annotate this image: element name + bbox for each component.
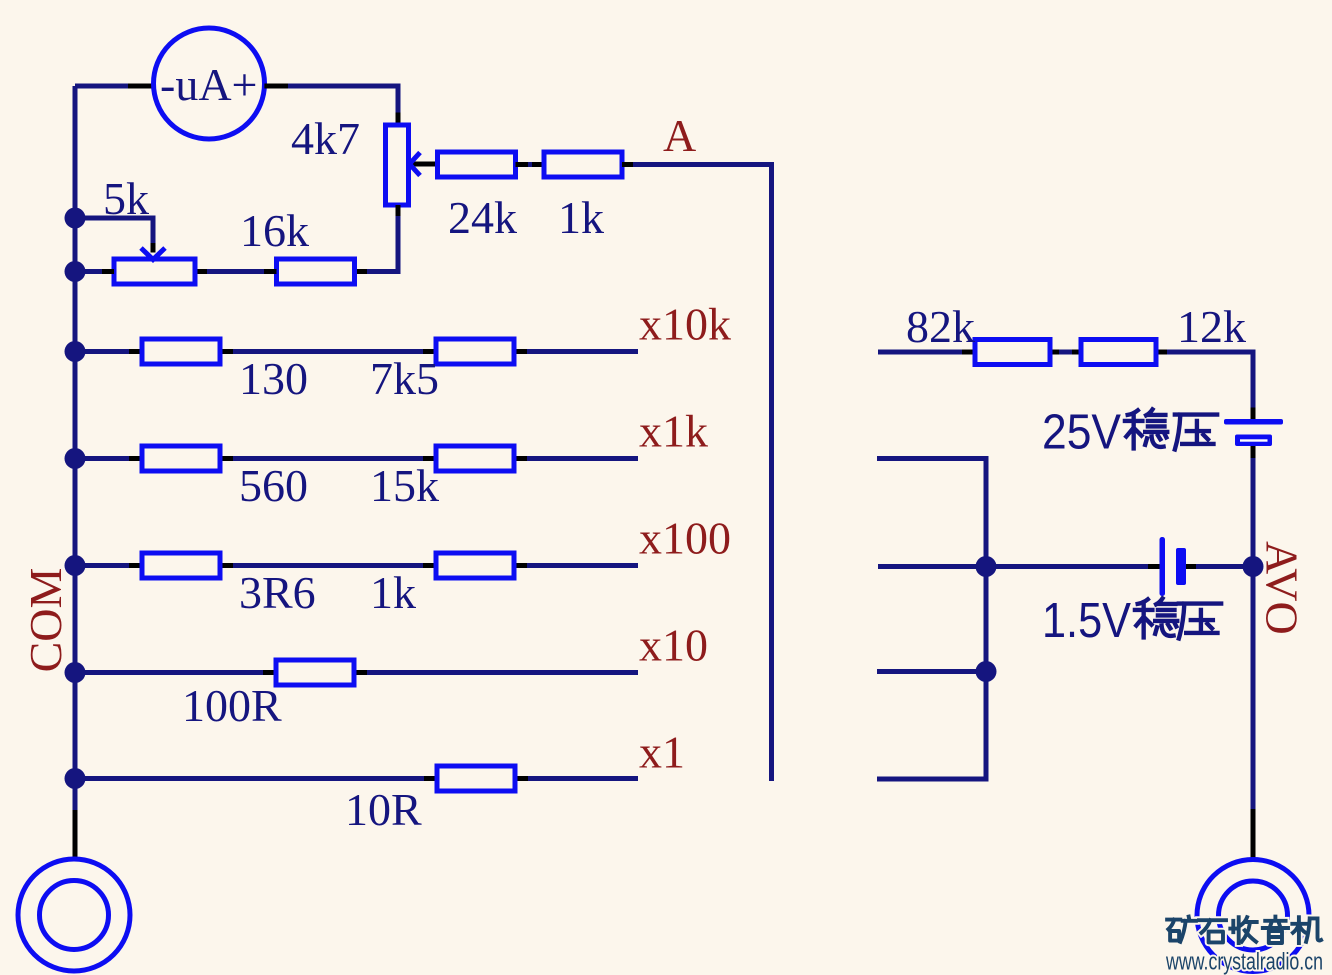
label 130 xyxy=(239,353,308,404)
wire: x10k row xyxy=(75,349,638,354)
node A label xyxy=(663,110,696,161)
label 4k7 xyxy=(291,113,360,164)
watermark halo xyxy=(1167,917,1321,943)
resistor R14 82k xyxy=(975,340,1050,365)
wire: x1k row xyxy=(75,456,638,461)
svg-text:1k: 1k xyxy=(558,192,604,243)
svg-text:7k5: 7k5 xyxy=(370,353,439,404)
svg-text:4k7: 4k7 xyxy=(291,113,360,164)
terminal COM concentric circles xyxy=(18,859,130,971)
svg-text:82k: 82k xyxy=(906,301,975,352)
label 560 xyxy=(239,460,308,511)
wiper arrow of 4k7 xyxy=(409,153,437,176)
resistor R2 16k xyxy=(277,259,355,284)
svg-text:100R: 100R xyxy=(182,680,282,731)
label 25V stabilizer xyxy=(1042,406,1217,460)
resistor R15 12k xyxy=(1081,340,1156,365)
wire: COM bus black pin to bottom terminal xyxy=(73,810,78,860)
wire: 82k 12k row xyxy=(878,352,1253,409)
wire: x10 row xyxy=(75,670,638,675)
svg-text:COM: COM xyxy=(20,568,71,673)
svg-text:15k: 15k xyxy=(370,460,439,511)
svg-text:1k: 1k xyxy=(370,567,416,618)
wire: between 5k and 16k xyxy=(195,269,277,274)
junction dot AVO node xyxy=(1243,556,1264,577)
ammeter label -uA+ xyxy=(160,59,257,110)
svg-text:A: A xyxy=(663,110,696,161)
label 10R xyxy=(345,784,422,835)
resistor R13 10R xyxy=(437,766,515,791)
node x100 label xyxy=(639,513,731,564)
resistor R5 1k xyxy=(544,152,622,177)
svg-text:12k: 12k xyxy=(1177,301,1246,352)
svg-text:x10: x10 xyxy=(639,620,708,671)
junction dots on COM bus xyxy=(65,208,86,790)
svg-text:560: 560 xyxy=(239,460,308,511)
label 1.5V stabilizer xyxy=(1042,594,1221,648)
resistor R6 130 xyxy=(142,339,220,364)
watermark url www.crystalradio.cn xyxy=(1165,949,1323,975)
resistor R12 100R xyxy=(276,660,354,685)
zener D1 25V battery symbol xyxy=(1224,408,1283,459)
wire: between 24k and 1k xyxy=(516,162,547,167)
wire: x1 row xyxy=(75,776,638,781)
label 24k xyxy=(448,192,517,243)
svg-text:16k: 16k xyxy=(240,205,309,256)
terminal AVO concentric circles xyxy=(1197,860,1309,972)
label 1k xyxy=(558,192,604,243)
label 100R xyxy=(182,680,282,731)
node AVO label xyxy=(1257,541,1308,635)
ammeter U1 -uA+ circle xyxy=(154,28,265,139)
node x10 label xyxy=(639,620,708,671)
wire: top horizontal to meter left xyxy=(75,84,154,89)
node x1k label xyxy=(639,406,708,457)
svg-text:-uA+: -uA+ xyxy=(160,59,257,110)
wire: 5k wiper tap from bus xyxy=(75,218,165,260)
potentiometer R1 4k7 body xyxy=(386,125,409,205)
watermark text 矿石收音机 xyxy=(1167,917,1321,943)
resistor R7 7k5 xyxy=(436,339,514,364)
label 15k xyxy=(370,460,439,511)
wire: x100 row xyxy=(75,563,638,568)
wire: 4k7 bottom down to 16k row xyxy=(355,205,399,272)
wire: meter right to corner and down to 4k7 xyxy=(264,86,398,125)
node COM label xyxy=(20,568,71,673)
battery B1 1.5V xyxy=(986,537,1253,596)
label 1k xyxy=(370,567,416,618)
svg-text:www.crystalradio.cn: www.crystalradio.cn xyxy=(1165,949,1323,975)
potentiometer R3 5k body xyxy=(114,259,195,284)
node x1 label xyxy=(639,727,685,778)
wire: AVO vertical to terminal xyxy=(1251,567,1256,861)
wire: bus to 5k left xyxy=(75,269,114,274)
svg-text:130: 130 xyxy=(239,353,308,404)
resistor R4 24k xyxy=(438,152,516,177)
resistor R9 15k xyxy=(436,446,514,471)
svg-text:1.5V: 1.5V xyxy=(1042,594,1131,648)
label 3R6 xyxy=(239,567,316,618)
wire: left bracket vertical xyxy=(877,459,986,780)
junction dots on bracket xyxy=(976,556,997,682)
label 12k xyxy=(1177,301,1246,352)
svg-text:x1k: x1k xyxy=(639,406,708,457)
svg-text:x10k: x10k xyxy=(639,299,731,350)
wire: 1k to A terminal corner down xyxy=(622,165,772,782)
wire: COM bus vertical xyxy=(73,86,78,812)
svg-text:10R: 10R xyxy=(345,784,422,835)
node x10k label xyxy=(639,299,731,350)
svg-text:3R6: 3R6 xyxy=(239,567,316,618)
label 7k5 xyxy=(370,353,439,404)
svg-text:24k: 24k xyxy=(448,192,517,243)
label 82k xyxy=(906,301,975,352)
wire: 25V to AVO node xyxy=(1251,458,1256,567)
resistor R10 3R6 xyxy=(142,553,220,578)
resistor R8 560 xyxy=(142,446,220,471)
svg-text:AVO: AVO xyxy=(1257,541,1308,635)
label 16k xyxy=(240,205,309,256)
svg-text:x1: x1 xyxy=(639,727,685,778)
resistor R11 1k xyxy=(436,553,514,578)
label 5k xyxy=(103,173,149,224)
svg-text:25V: 25V xyxy=(1042,406,1121,460)
svg-text:x100: x100 xyxy=(639,513,731,564)
